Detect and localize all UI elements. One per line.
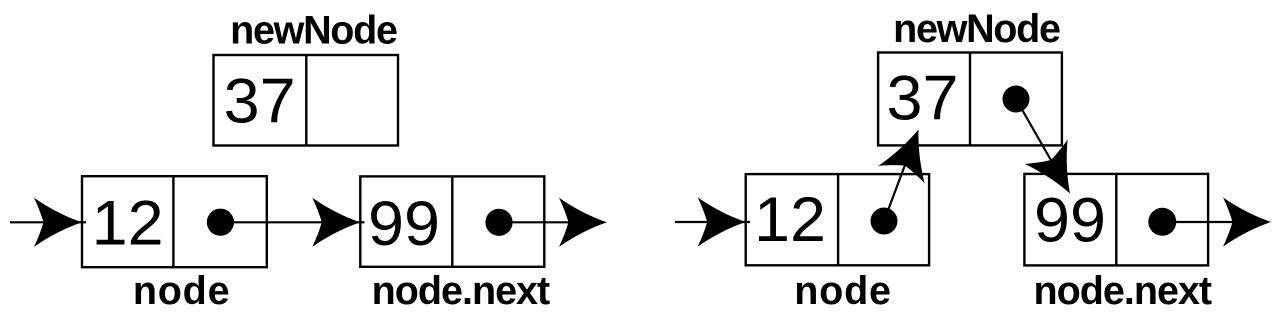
value 37 (right) (887, 63, 959, 133)
svg-text:99: 99 (368, 189, 440, 259)
wire newNode dot to node.next (right diagonal) (1016, 99, 1060, 176)
svg-text:99: 99 (1034, 185, 1106, 255)
box node.next (right) (1024, 174, 1208, 266)
pointer dot node (left) (207, 209, 234, 236)
arrowhead into node.next (right diagonal) (1025, 140, 1092, 206)
svg-text:37: 37 (887, 63, 959, 133)
label node (left) (133, 269, 231, 313)
label node.next (left) (372, 269, 550, 313)
wire incoming (right) (675, 221, 750, 223)
arrowhead outgoing (right) (1223, 197, 1271, 246)
box newNode (right) (878, 53, 1062, 146)
box newNode (left) (214, 55, 399, 146)
wire outgoing (left) (499, 221, 600, 223)
pointer dot node.next (right) (1148, 208, 1176, 236)
pointer dot node (right) (871, 208, 898, 235)
svg-text:node: node (133, 269, 231, 313)
svg-text:newNode: newNode (230, 9, 397, 53)
wire outgoing (right) (1162, 221, 1264, 223)
value 99 (left) (368, 189, 440, 259)
svg-text:37: 37 (224, 67, 296, 137)
arrowhead incoming (left) (34, 198, 82, 247)
label newNode (right) (893, 7, 1060, 51)
pointer dot newNode (right) (1003, 86, 1030, 113)
wire incoming (left) (10, 221, 86, 223)
arrowhead into node.next (left) (312, 198, 360, 247)
svg-text:newNode: newNode (893, 7, 1060, 51)
svg-text:12: 12 (92, 188, 164, 258)
arrowhead outgoing (left) (559, 198, 607, 247)
box node (right) (746, 174, 929, 265)
svg-text:node: node (794, 269, 892, 313)
label node.next (right) (1034, 269, 1212, 313)
svg-text:node.next: node.next (1034, 269, 1212, 313)
wire node to node.next (left) (220, 221, 364, 223)
label node (right) (794, 269, 892, 313)
label newNode (left) (230, 9, 397, 53)
value 12 (right) (754, 185, 826, 255)
value 99 (right) (1034, 185, 1106, 255)
svg-text:12: 12 (754, 185, 826, 255)
arrowhead incoming (right) (698, 197, 746, 246)
value 37 (left) (224, 67, 296, 137)
wire node dot to newNode (right diagonal) (884, 149, 911, 221)
box node.next (left) (360, 176, 544, 266)
svg-text:node.next: node.next (372, 269, 550, 313)
value 12 (left) (92, 188, 164, 258)
arrowhead into newNode (right diagonal) (879, 121, 942, 183)
pointer dot node.next (left) (485, 209, 512, 236)
box node (left) (82, 176, 267, 267)
